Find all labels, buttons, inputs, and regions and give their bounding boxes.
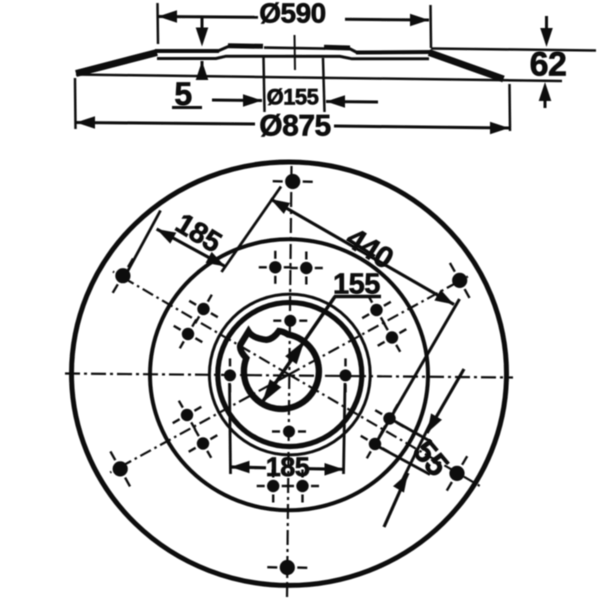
svg-text:Ø590: Ø590	[259, 0, 326, 28]
svg-text:5: 5	[174, 76, 191, 112]
svg-text:185: 185	[266, 452, 310, 482]
svg-text:Ø875: Ø875	[259, 109, 330, 142]
svg-text:155: 155	[333, 269, 380, 301]
svg-text:62: 62	[530, 45, 567, 83]
svg-text:Ø155: Ø155	[267, 84, 319, 109]
